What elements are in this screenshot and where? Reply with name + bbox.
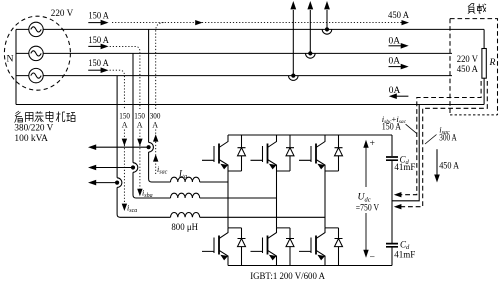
wire phase line A xyxy=(43,28,484,30)
arrowhead path B into bus xyxy=(394,204,402,209)
svg-text:150 A: 150 A xyxy=(88,10,109,21)
svg-text:0A: 0A xyxy=(389,56,401,67)
junction dots CT xyxy=(115,27,329,184)
wire compensation stub 2 xyxy=(96,167,134,169)
capacitor Cd bottom plates xyxy=(386,244,398,247)
lower diode leg1 xyxy=(238,228,246,266)
wire coil2 to leg2 xyxy=(200,197,277,199)
wire CT sense B up xyxy=(309,10,311,53)
wire phase line C xyxy=(43,75,452,77)
wire tap A down xyxy=(149,29,171,182)
svg-text:A: A xyxy=(122,121,128,130)
lower IGBT leg2 xyxy=(251,228,277,266)
0A arrow neutral left xyxy=(396,95,408,97)
arrowhead col3 lower up xyxy=(153,154,158,161)
arrowhead col1 upper down xyxy=(137,139,142,146)
lower diode leg3 xyxy=(335,228,343,266)
dotted 450A top annotation xyxy=(110,23,403,204)
CJK 备用发电机组 drawn strokes xyxy=(15,111,76,123)
wire CT sense C up xyxy=(292,10,294,76)
upper IGBT leg2 xyxy=(251,135,277,171)
wire left neutral bus xyxy=(15,29,17,104)
CT bump line B xyxy=(306,53,316,58)
upper diode leg1 xyxy=(238,135,246,171)
arrowheads on annotation lines xyxy=(122,20,409,211)
450A down arrow annotation xyxy=(436,149,438,175)
wire neutral drop to bus mid xyxy=(392,105,419,201)
arrowhead path A into bus xyxy=(394,192,402,197)
svg-text:800 μH: 800 μH xyxy=(171,222,198,233)
svg-text:150 A: 150 A xyxy=(88,58,109,69)
svg-text:41mF: 41mF xyxy=(394,250,415,260)
lower IGBT leg3 xyxy=(299,228,325,266)
svg-text:150: 150 xyxy=(119,112,130,121)
svg-text:IGBT:1 200 V/600 A: IGBT:1 200 V/600 A xyxy=(250,271,325,281)
CT bump tap A xyxy=(149,142,154,152)
0A arrow row3 xyxy=(389,66,402,68)
leader isbc+isac xyxy=(406,124,417,133)
CT bump line C xyxy=(289,76,299,81)
leader isac xyxy=(425,135,437,145)
dotted row3 annotation curve xyxy=(110,70,125,204)
svg-text:A: A xyxy=(152,121,158,130)
phase node jogs lower xyxy=(228,227,339,229)
svg-text:−: − xyxy=(370,252,375,263)
svg-text:41mF: 41mF xyxy=(394,162,415,172)
AC source G3 xyxy=(29,68,43,82)
dashed current path A (isbc+isac) xyxy=(400,81,482,195)
IGBT bridge xyxy=(202,135,343,266)
dashed current path B (isac) xyxy=(400,81,488,207)
wire coil3 to leg3 xyxy=(200,216,325,218)
phase node jogs upper xyxy=(228,170,339,172)
arrowhead col2 upper down xyxy=(122,139,127,146)
inductor La coil 1 xyxy=(171,177,200,182)
load box dashed xyxy=(450,19,498,115)
load resistor top lead xyxy=(483,29,485,48)
150A arrow row1 xyxy=(88,23,437,175)
wire coil1 to leg1 xyxy=(200,181,228,183)
svg-text:150: 150 xyxy=(134,112,145,121)
AC source G2 xyxy=(29,46,43,60)
svg-text:450 A: 450 A xyxy=(457,64,478,75)
Udc measurement arrow xyxy=(365,142,367,257)
wire tap B down xyxy=(133,53,171,198)
arrowheads compensation stubs xyxy=(88,144,96,150)
arrowheads top CT sense lines xyxy=(324,1,330,9)
arrowhead col3 upper up xyxy=(153,134,158,141)
CT bump tap B xyxy=(133,163,138,173)
150A arrow row2 xyxy=(88,45,101,47)
svg-text:0A: 0A xyxy=(389,85,401,96)
svg-text:N: N xyxy=(7,54,14,65)
0A arrow row2 xyxy=(389,45,402,47)
arrowhead mid 450A xyxy=(195,20,203,25)
svg-text:300 A: 300 A xyxy=(439,133,457,143)
svg-text:R: R xyxy=(489,57,496,68)
CJK 负载 drawn strokes xyxy=(468,4,486,14)
wire source left stubs xyxy=(16,29,29,75)
generator dashed circle xyxy=(4,16,70,90)
svg-text:380/220 V: 380/220 V xyxy=(14,123,53,134)
arrowhead col2 lower down xyxy=(122,204,127,211)
svg-text:100 kVA: 100 kVA xyxy=(14,133,48,144)
wire bottom rail DC- xyxy=(228,265,392,267)
svg-text:300: 300 xyxy=(150,112,161,121)
svg-text:150 A: 150 A xyxy=(88,35,109,46)
wire compensation stub 1 xyxy=(96,146,149,148)
inductor coil 2 xyxy=(171,193,200,198)
svg-text:A: A xyxy=(137,121,143,130)
resistor R body xyxy=(482,49,486,79)
svg-text:220 V: 220 V xyxy=(51,8,73,19)
upper diode leg3 xyxy=(335,135,343,171)
lower diode leg2 xyxy=(286,228,294,266)
phase verticals xyxy=(228,171,325,228)
AC source G1 xyxy=(29,22,43,36)
load resistor bottom lead xyxy=(483,78,485,104)
wire neutral line xyxy=(16,104,484,106)
svg-text:0A: 0A xyxy=(389,36,401,47)
wire CT sense A up xyxy=(326,10,328,29)
150A arrow row3 xyxy=(88,69,101,71)
wire top rail DC+ xyxy=(228,134,392,136)
upper IGBT leg1 xyxy=(202,135,228,171)
lower IGBT leg1 xyxy=(202,228,228,266)
svg-text:450 A: 450 A xyxy=(388,10,409,21)
upper IGBT leg3 xyxy=(299,135,325,171)
dotted column 300A up xyxy=(156,23,164,174)
arrowhead end 450A xyxy=(402,20,410,25)
wire tap C down xyxy=(117,76,170,218)
wire DC bus vertical xyxy=(391,135,393,266)
wire compensation stub 3 xyxy=(96,182,118,184)
svg-text:450 A: 450 A xyxy=(439,161,459,171)
svg-text:+: + xyxy=(370,138,375,149)
CT bump line A xyxy=(322,29,332,34)
svg-text:150 A: 150 A xyxy=(382,122,402,132)
wire phase line B xyxy=(43,52,452,54)
dotted row2 annotation curve xyxy=(110,46,140,188)
upper diode leg2 xyxy=(286,135,294,171)
svg-text:=750 V: =750 V xyxy=(356,203,379,214)
arrowhead col1 lower down xyxy=(137,189,142,196)
inductor coil 3 xyxy=(171,213,200,218)
CT bump tap C xyxy=(117,178,122,188)
capacitor Cd top plates xyxy=(386,157,398,247)
